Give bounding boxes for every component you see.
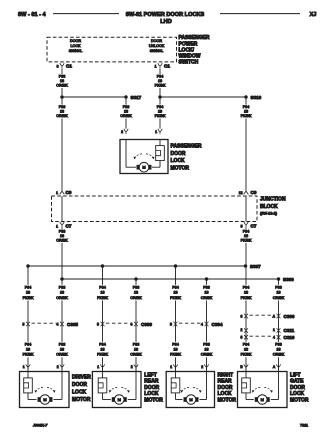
svg-text:2: 2 (131, 365, 133, 369)
value label P33 18 OR/BK (56, 342, 68, 358)
label: LEFT REAR DOOR LOCK MOTOR (144, 372, 163, 403)
svg-text:M: M (261, 397, 264, 402)
svg-text:XJ: XJ (310, 12, 317, 18)
connector C1 pin 8 (57, 63, 73, 68)
svg-text:OR/BK: OR/BK (273, 296, 285, 300)
svg-text:2: 2 (241, 328, 243, 332)
svg-text:S316: S316 (251, 95, 262, 100)
connector C309 pin 5 (half) (97, 322, 104, 327)
wire P34 from C1-1 (159, 69, 161, 96)
svg-text:7611: 7611 (300, 424, 308, 428)
svg-text:18: 18 (158, 110, 162, 114)
svg-text:C9: C9 (66, 190, 72, 195)
svg-text:5: 5 (170, 323, 172, 327)
svg-text:POWER: POWER (179, 41, 198, 47)
svg-text:DOOR: DOOR (144, 385, 159, 391)
wire: dashed link inside C305 (32, 322, 59, 324)
header rule right (220, 13, 300, 15)
motor pin 2 at x=136 (131, 364, 138, 369)
wire P33 from S317 to passenger motor pin 2 (125, 97, 127, 129)
svg-text:OR/BK: OR/BK (56, 238, 68, 242)
svg-text:J998N-7: J998N-7 (32, 424, 48, 428)
value label P33 18 OR/BK (56, 105, 68, 119)
svg-text:C7: C7 (251, 224, 257, 229)
value label P33 18 OR/BK (273, 342, 285, 358)
svg-text:DOOR: DOOR (290, 385, 305, 391)
svg-text:2: 2 (57, 365, 59, 369)
connector C1 pin 1 (155, 63, 171, 68)
svg-text:M: M (118, 397, 121, 402)
svg-text:P33: P33 (275, 342, 282, 346)
svg-text:SIGNAL: SIGNAL (69, 49, 83, 53)
motor M1: passenger door lock motor (120, 140, 168, 174)
value label P34 18 PK/BK (240, 229, 252, 243)
svg-text:18: 18 (134, 348, 138, 352)
svg-text:P33: P33 (59, 342, 66, 346)
svg-text:MOTOR: MOTOR (290, 398, 309, 404)
svg-text:PK/BK: PK/BK (97, 353, 108, 357)
passenger motor pin 2 (121, 129, 128, 134)
motor M4: right rear door lock motor (166, 372, 214, 408)
wire through junction block right (245, 196, 247, 222)
page header left: 8W - 61 - 4 (18, 12, 47, 18)
svg-text:S306: S306 (283, 277, 294, 282)
svg-text:C7: C7 (66, 224, 72, 229)
svg-text:P34: P34 (172, 285, 179, 289)
svg-text:DOOR: DOOR (70, 39, 81, 43)
connector C310 pins 5 / 4 (241, 335, 295, 340)
motor pin A at x=278.5 (273, 364, 281, 369)
svg-text:REAR: REAR (144, 379, 159, 385)
splice S317 (124, 95, 141, 100)
svg-text:OR/BK: OR/BK (56, 353, 68, 357)
svg-text:OR/BK: OR/BK (130, 296, 142, 300)
svg-text:8W - 61 - 4: 8W - 61 - 4 (18, 12, 47, 18)
svg-text:8: 8 (57, 64, 59, 68)
svg-text:MOTOR: MOTOR (144, 398, 163, 404)
motor M2: driver door lock motor (20, 372, 70, 408)
svg-text:18: 18 (244, 234, 248, 238)
value label P34 18 PK/BK (240, 105, 252, 119)
svg-text:OR/BK: OR/BK (120, 114, 132, 118)
svg-text:PK/BK: PK/BK (155, 114, 166, 118)
svg-text:PK/BK: PK/BK (97, 296, 108, 300)
svg-text:OR/BK: OR/BK (56, 114, 68, 118)
value label P34 18 PK/BK (22, 342, 34, 358)
svg-text:DOOR: DOOR (151, 39, 162, 43)
node: DOOR UNLOCK SIGNAL (149, 39, 165, 53)
connector C9 pin 1 (56, 190, 72, 195)
value label P33 18 OR/BK (130, 285, 142, 301)
svg-text:LOCK: LOCK (70, 44, 81, 48)
svg-text:MOTOR: MOTOR (72, 397, 91, 403)
motor pin 1 at x=28 (23, 364, 30, 369)
svg-text:GATE: GATE (290, 379, 304, 385)
svg-text:C304: C304 (212, 322, 223, 327)
svg-text:PK/BK: PK/BK (241, 353, 252, 357)
svg-text:P34: P34 (243, 285, 250, 289)
svg-text:LIFT: LIFT (290, 372, 301, 378)
svg-text:P33: P33 (203, 342, 210, 346)
value label P33 18 OR/BK (56, 74, 68, 88)
connector C305 pin 5 (half) (23, 322, 30, 327)
wire P34 from junction to passenger motor pin 1 (159, 97, 161, 129)
svg-text:5: 5 (241, 225, 243, 229)
svg-text:P34: P34 (25, 285, 32, 289)
svg-text:8W-61 POWER DOOR LOCKS: 8W-61 POWER DOOR LOCKS (126, 12, 205, 18)
label: LIFT GATE DOOR LOCK MOTOR (290, 372, 309, 403)
wire: dashed link inside C310 (250, 335, 276, 337)
svg-text:M: M (142, 165, 145, 170)
label: PASSENGER DOOR LOCK MOTOR (171, 143, 202, 171)
connector C7 pin 5 (241, 222, 257, 229)
footer page code 7611 (300, 424, 308, 428)
motor pin 2 at x=62 (57, 364, 64, 369)
label: RIGHT REAR DOOR LOCK MOTOR (218, 372, 237, 403)
svg-text:(8W-12-2): (8W-12-2) (260, 212, 278, 216)
svg-text:S317: S317 (131, 95, 142, 100)
svg-text:B: B (240, 365, 243, 369)
value label P33 18 OR/BK (130, 342, 142, 358)
splice S307 rail (P34) (26, 264, 261, 269)
svg-text:SWITCH: SWITCH (179, 60, 199, 66)
svg-text:DOOR: DOOR (218, 385, 233, 391)
svg-text:MOTOR: MOTOR (171, 166, 190, 172)
junction on P33 wire (60, 95, 64, 99)
junction block (dashed outline) (52, 196, 258, 222)
svg-text:OR/BK: OR/BK (56, 83, 68, 87)
page title: 8W-61 POWER DOOR LOCKS LHD (126, 12, 205, 25)
connector C311 pins 2 / 1 (241, 328, 295, 333)
svg-text:DOOR: DOOR (171, 151, 186, 157)
svg-text:DOOR: DOOR (72, 382, 87, 388)
value label P33 18 OR/BK (56, 229, 68, 243)
wire: dashed link inside C308 (250, 314, 276, 316)
svg-text:5: 5 (97, 323, 99, 327)
value label P34 18 PK/BK (97, 342, 109, 358)
svg-text:C310: C310 (284, 335, 295, 340)
svg-text:A: A (273, 365, 276, 369)
svg-text:P34: P34 (99, 342, 106, 346)
value label P33 18 OR/BK (201, 342, 213, 358)
svg-text:C311: C311 (284, 328, 295, 333)
svg-text:LOCK: LOCK (72, 390, 87, 396)
svg-text:1: 1 (155, 130, 157, 134)
svg-text:PK/BK: PK/BK (155, 83, 166, 87)
svg-text:LOCK: LOCK (218, 391, 233, 397)
svg-text:LHD: LHD (160, 19, 172, 25)
svg-text:P33: P33 (275, 285, 282, 289)
svg-text:C309: C309 (141, 322, 152, 327)
wire P33 from C1-8 (61, 69, 63, 96)
svg-text:RIGHT: RIGHT (218, 372, 234, 378)
svg-text:OR/BK: OR/BK (56, 296, 68, 300)
switch S1: passenger power lock/window switch (dashed outline) (47, 37, 177, 62)
wire P34 drop at x=246 (245, 266, 247, 372)
svg-text:P33: P33 (123, 105, 130, 109)
header rule left (53, 13, 119, 15)
svg-text:5: 5 (241, 335, 243, 339)
svg-text:18: 18 (100, 348, 104, 352)
svg-text:PK/BK: PK/BK (241, 238, 252, 242)
svg-text:18: 18 (244, 110, 248, 114)
svg-text:18: 18 (276, 348, 280, 352)
value label P33 18 OR/BK (56, 285, 68, 301)
wire through junction block left (61, 196, 63, 222)
svg-text:S307: S307 (250, 264, 261, 269)
svg-text:18: 18 (173, 348, 177, 352)
junction on P34 wire (158, 95, 162, 99)
svg-text:PK/BK: PK/BK (170, 296, 181, 300)
wire P34 from S316 to junction block C9-12 (245, 97, 247, 191)
svg-text:P34: P34 (157, 75, 164, 79)
svg-text:4: 4 (57, 323, 59, 327)
motor M5: lift gate door lock motor (238, 372, 288, 408)
svg-text:1: 1 (23, 365, 25, 369)
value label P34 18 PK/BK (240, 285, 252, 301)
svg-text:1: 1 (155, 64, 157, 68)
connector C308 pin 8 (half) (241, 314, 248, 319)
svg-text:12: 12 (239, 191, 243, 195)
svg-text:2: 2 (201, 365, 203, 369)
svg-text:1: 1 (97, 365, 99, 369)
svg-text:18: 18 (276, 291, 280, 295)
connector C7 pin 1 (56, 222, 72, 229)
svg-text:P33: P33 (133, 285, 140, 289)
svg-text:LOCK/: LOCK/ (179, 47, 195, 53)
svg-text:18: 18 (124, 110, 128, 114)
svg-text:2: 2 (121, 130, 123, 134)
motor M3: left rear door lock motor (92, 372, 141, 408)
wire P33 drop at x=206.5 (206, 279, 208, 372)
value label P34 18 PK/BK (97, 285, 109, 301)
connector C304 pin 4 (half) (201, 322, 223, 327)
wire P33 drop at x=62 (61, 279, 63, 372)
svg-text:LOCK: LOCK (290, 391, 305, 397)
svg-text:OR/BK: OR/BK (273, 353, 285, 357)
wire P34 drop at x=175.5 (175, 266, 177, 372)
footer plate code J998N-7 (32, 424, 48, 428)
wire to splice S317 (62, 96, 126, 98)
connector C305 pin 4 (half) (57, 322, 79, 327)
svg-text:C305: C305 (67, 322, 78, 327)
svg-text:PASSENGER: PASSENGER (171, 143, 202, 149)
svg-text:5: 5 (23, 323, 25, 327)
wire P33 from C7-1 to splice S306 (crosses S307 rail) (61, 227, 63, 279)
passenger motor pin 1 (155, 129, 162, 134)
splice S316 (244, 95, 261, 100)
svg-text:A: A (273, 315, 276, 319)
svg-text:MOTOR: MOTOR (218, 398, 237, 404)
svg-text:P34: P34 (243, 230, 250, 234)
svg-text:18: 18 (26, 348, 30, 352)
svg-text:OR/BK: OR/BK (201, 353, 213, 357)
value label P34 18 PK/BK (22, 285, 34, 301)
value label P33 18 OR/BK (273, 285, 285, 301)
svg-text:1: 1 (56, 191, 58, 195)
value label P33 18 OR/BK (120, 105, 132, 119)
motor pin 2 at x=206.5 (201, 364, 208, 369)
svg-text:C9: C9 (251, 190, 257, 195)
wire: dashed link inside C309 (106, 322, 133, 324)
svg-text:18: 18 (244, 291, 248, 295)
wire P34 from C7-5 to splice S307 (245, 227, 247, 266)
svg-text:18: 18 (60, 110, 64, 114)
svg-text:OR/BK: OR/BK (201, 296, 213, 300)
value label P34 18 PK/BK (240, 342, 252, 358)
svg-text:18: 18 (204, 348, 208, 352)
svg-text:18: 18 (158, 79, 162, 83)
value label P33 18 OR/BK (201, 285, 213, 301)
wire P34 drop at x=102.5 (102, 266, 104, 372)
node: DOOR LOCK SIGNAL (69, 39, 83, 53)
svg-text:18: 18 (60, 79, 64, 83)
svg-text:PASSENGER: PASSENGER (179, 35, 210, 41)
svg-text:LOCK: LOCK (171, 158, 186, 164)
page header right: XJ (310, 12, 317, 18)
svg-text:1: 1 (170, 365, 172, 369)
connector C9 pin 12 (239, 190, 257, 195)
svg-text:LEFT: LEFT (144, 372, 157, 378)
svg-text:P33: P33 (59, 285, 66, 289)
svg-text:4: 4 (273, 335, 275, 339)
svg-text:WINDOW: WINDOW (179, 54, 201, 60)
svg-text:P34: P34 (243, 342, 250, 346)
svg-text:4: 4 (201, 323, 203, 327)
svg-text:PK/BK: PK/BK (241, 114, 252, 118)
svg-text:18: 18 (173, 291, 177, 295)
svg-text:P33: P33 (59, 105, 66, 109)
connector C308 pin A (half) (273, 314, 295, 319)
svg-text:18: 18 (100, 291, 104, 295)
motor pin B at x=246 (240, 364, 248, 369)
svg-text:PK/BK: PK/BK (170, 353, 181, 357)
wire P33 from junction to junction block C9-1 (61, 97, 63, 191)
svg-text:C308: C308 (284, 314, 295, 319)
svg-text:18: 18 (60, 291, 64, 295)
svg-text:P33: P33 (133, 342, 140, 346)
wire: dashed link inside C304 (179, 322, 203, 324)
svg-text:UNLOCK: UNLOCK (149, 44, 165, 48)
label: JUNCTION BLOCK (8W-12-2) (260, 197, 286, 216)
svg-text:LOCK: LOCK (144, 391, 159, 397)
motor pin 1 at x=102.5 (97, 364, 104, 369)
svg-text:P34: P34 (25, 342, 32, 346)
value label P34 18 PK/BK (170, 285, 182, 301)
svg-text:4: 4 (131, 323, 133, 327)
svg-text:REAR: REAR (218, 379, 233, 385)
value label P34 18 PK/BK (154, 105, 166, 119)
svg-text:18: 18 (60, 234, 64, 238)
splice S306 rail (P33) (60, 277, 294, 282)
svg-text:P34: P34 (172, 342, 179, 346)
svg-text:C1: C1 (66, 64, 72, 69)
svg-text:PK/BK: PK/BK (23, 353, 34, 357)
svg-text:18: 18 (204, 291, 208, 295)
wire P33 drop at x=136 (135, 279, 137, 372)
svg-text:P34: P34 (99, 285, 106, 289)
svg-text:JUNCTION: JUNCTION (260, 197, 286, 203)
motor pin 1 at x=175.5 (170, 364, 177, 369)
svg-text:P33: P33 (203, 285, 210, 289)
svg-text:18: 18 (60, 348, 64, 352)
svg-text:SIGNAL: SIGNAL (150, 49, 164, 53)
wire P33 drop at x=278.5 (278, 279, 280, 372)
svg-text:BLOCK: BLOCK (260, 204, 278, 210)
wire P34 drop at x=28 (27, 266, 29, 372)
svg-text:PK/BK: PK/BK (23, 296, 34, 300)
svg-text:8: 8 (241, 315, 243, 319)
svg-text:P33: P33 (59, 75, 66, 79)
svg-text:C1: C1 (164, 64, 170, 69)
connector C309 pin 4 (half) (131, 322, 153, 327)
value label P34 18 PK/BK (154, 74, 166, 88)
svg-text:P34: P34 (243, 105, 250, 109)
svg-text:P33: P33 (59, 230, 66, 234)
label: DRIVER DOOR LOCK MOTOR (72, 375, 91, 403)
svg-text:M: M (189, 397, 192, 402)
svg-text:M: M (43, 397, 46, 402)
svg-text:18: 18 (26, 291, 30, 295)
connector C304 pin 5 (half) (170, 322, 177, 327)
label: PASSENGER POWER LOCK/WINDOW SWITCH (179, 35, 210, 65)
svg-text:18: 18 (244, 348, 248, 352)
svg-text:P34: P34 (157, 105, 164, 109)
svg-text:OR/BK: OR/BK (130, 353, 142, 357)
svg-text:DRIVER: DRIVER (72, 375, 91, 381)
svg-text:18: 18 (134, 291, 138, 295)
svg-text:PK/BK: PK/BK (241, 296, 252, 300)
value label P34 18 PK/BK (170, 342, 182, 358)
svg-text:1: 1 (56, 225, 58, 229)
wire to splice S316 (160, 96, 246, 98)
svg-text:1: 1 (273, 328, 275, 332)
